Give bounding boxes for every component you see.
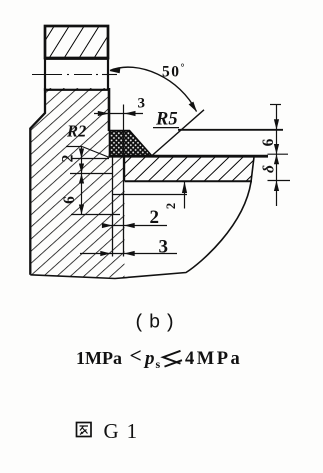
- weld bead: [110, 131, 152, 156]
- dimension 3 bottom: [80, 251, 177, 256]
- chamfer line: [152, 110, 205, 156]
- svg-text:2: 2: [60, 154, 77, 162]
- svg-text:p: p: [143, 348, 155, 369]
- bolt hole band: [45, 59, 108, 90]
- dimension 2 bottom: [102, 223, 167, 228]
- boss top surface line: [178, 129, 283, 131]
- dimension 3 top: [94, 105, 143, 132]
- plate section: [125, 157, 255, 181]
- svg-text:4MPa: 4MPa: [185, 349, 242, 369]
- svg-text:1MPa: 1MPa: [76, 348, 122, 368]
- right dimension chain 6 and delta: [268, 105, 291, 207]
- svg-text:R5: R5: [155, 110, 178, 130]
- svg-text:<: <: [130, 344, 142, 368]
- svg-text:R2: R2: [66, 122, 86, 141]
- angle arc 50 deg: [110, 67, 197, 112]
- extension lines below plate: [113, 131, 188, 257]
- label R2 with leader: [66, 122, 110, 158]
- break line (bottom edge): [30, 157, 254, 279]
- svg-text:3: 3: [138, 96, 146, 112]
- svg-text:δ: δ: [261, 165, 278, 173]
- svg-text:G1: G1: [104, 419, 146, 443]
- svg-text:s: s: [156, 357, 161, 371]
- svg-text:6: 6: [61, 196, 78, 204]
- flange hub hatched section: [45, 26, 108, 58]
- figure label CJK tu: [77, 423, 92, 437]
- left dimension chain 2 and 6: [70, 147, 120, 215]
- dimension 2 groove depth: [182, 182, 187, 209]
- plate top surface line: [109, 155, 269, 158]
- svg-text:2: 2: [164, 203, 178, 209]
- bolt hole center line: [32, 74, 117, 76]
- label R5: [153, 110, 179, 130]
- svg-text:50°: 50°: [162, 63, 186, 81]
- flange body section: [30, 88, 124, 278]
- caption pressure range: [76, 344, 242, 372]
- svg-text:(b): (b): [134, 312, 180, 334]
- svg-text:3: 3: [159, 237, 169, 258]
- svg-text:2: 2: [150, 207, 160, 228]
- svg-text:6: 6: [260, 138, 277, 146]
